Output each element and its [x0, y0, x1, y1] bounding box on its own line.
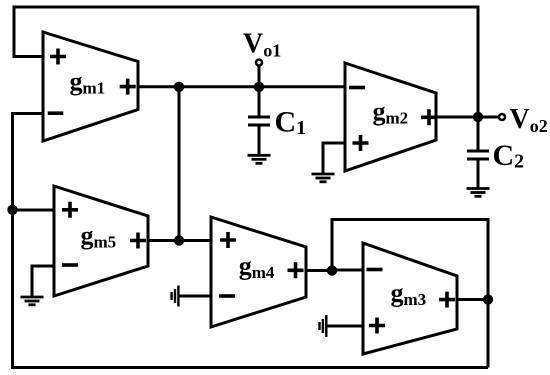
op-amp body gm5 — [54, 186, 148, 296]
wire top feedback from gm1 + input to Vo2 node — [14, 7, 478, 117]
pin - input gm2 — [349, 86, 365, 90]
pin + input gm1 — [50, 49, 66, 65]
ground below C1 — [248, 155, 271, 163]
wire gm1 - input to left rail — [13, 114, 44, 211]
svg-text:C1: C1 — [275, 106, 307, 140]
wire gm1 output to gm2 - input — [138, 85, 345, 88]
pin + input gm2 — [353, 135, 369, 151]
pin - input gm4 — [219, 294, 235, 298]
op-amp U3 gm3 — [363, 243, 457, 354]
pin - input gm5 — [62, 263, 78, 267]
pin + input gm5 — [62, 202, 78, 218]
wire right loop from bottom rail up to gm3 top wire and down to gm4 output junction — [332, 220, 488, 368]
pin + output gm4 — [288, 262, 304, 278]
node gm4/gm3 junction — [327, 265, 337, 275]
svg-text:gm5: gm5 — [81, 221, 117, 252]
pin - input gm1 — [48, 111, 64, 115]
node Vo1 junction — [254, 82, 264, 92]
wire Vo2 stub — [478, 116, 498, 119]
ground at gm2 + input — [312, 143, 346, 182]
op-amp body gm1 — [43, 32, 138, 141]
wire left rail down and bottom rail — [13, 210, 489, 368]
op-amp U4 gm4 — [211, 217, 306, 327]
svg-text:gm2: gm2 — [373, 97, 409, 128]
wire gm3 - input — [332, 269, 363, 272]
wire Vo1 stub — [258, 66, 261, 87]
pin + output gm1 — [120, 79, 136, 95]
ground below C2 — [467, 189, 490, 197]
ground at gm4 - input (sideways) — [172, 286, 211, 307]
node Vo2 terminal — [499, 114, 505, 120]
svg-text:C2: C2 — [493, 139, 525, 173]
pin + input gm4 — [220, 232, 236, 248]
pin + output gm5 — [130, 233, 146, 249]
ground at gm5 - input — [21, 266, 55, 305]
op-amp body gm3 — [363, 243, 457, 354]
op-amp U5 gm5 — [54, 186, 148, 296]
wire gm3 output — [457, 298, 488, 301]
op-amp U2 gm2 — [345, 63, 437, 171]
wire gm5 output to gm4 + input — [148, 239, 211, 242]
wire gm4 output — [306, 269, 332, 272]
pin + output gm3 — [439, 292, 455, 308]
capacitor C1 — [248, 87, 270, 155]
node gm5/gm4 junction — [174, 235, 184, 245]
ground at gm3 + input (sideways) — [320, 315, 364, 337]
svg-text:gm4: gm4 — [239, 252, 275, 283]
op-amp body gm4 — [211, 217, 306, 327]
node gm3 output junction — [483, 294, 493, 304]
svg-text:Vo2: Vo2 — [510, 104, 548, 136]
node junction mid vertical — [174, 82, 184, 92]
node left rail / gm5 + junction — [7, 205, 17, 215]
svg-text:gm1: gm1 — [70, 67, 106, 98]
svg-text:gm3: gm3 — [391, 279, 427, 310]
op-amp U1 gm1 — [43, 32, 138, 141]
wire gm5 + input — [13, 209, 55, 212]
pin + input gm3 — [369, 318, 385, 334]
wire gm2 output — [436, 116, 478, 119]
op-amp body gm2 — [345, 63, 436, 171]
svg-text:Vo1: Vo1 — [243, 29, 281, 61]
wire mid vertical — [178, 87, 181, 241]
pin + output gm2 — [421, 109, 437, 125]
capacitor C2 — [467, 117, 489, 188]
node Vo2 junction — [473, 112, 483, 122]
node Vo1 terminal — [256, 60, 262, 66]
pin - input gm3 — [367, 268, 383, 272]
